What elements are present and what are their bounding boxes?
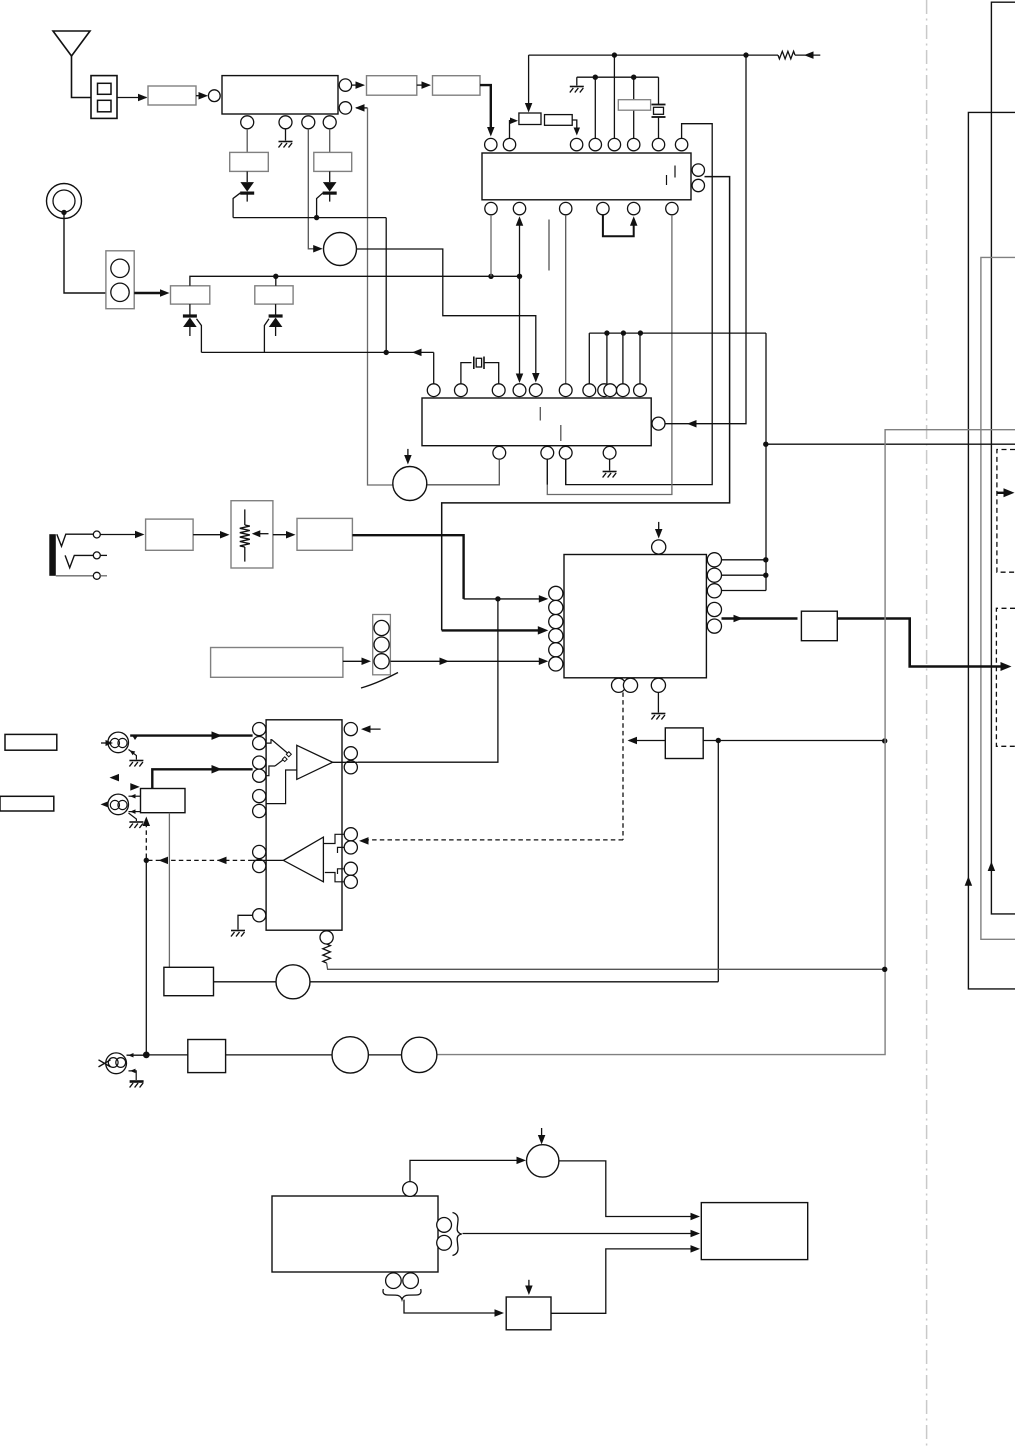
wire loop antenna to bar antenna [64,212,106,293]
pin IC4 right 4 [707,602,721,616]
connector sweep arc [361,673,398,689]
wire coil A to varactor D3 [189,304,191,316]
IC4 audio control IC [564,555,706,678]
pin IC5 left 6 [253,804,266,817]
mic jack J3 [108,794,129,815]
wire W3 gray bus to next page [981,257,1015,939]
headphone jack J1 [49,534,56,576]
buffer block [146,519,194,550]
junction rail right [743,52,748,57]
junction [314,215,319,220]
pin IC4 left 2 [549,600,563,614]
wire W1 to next page (top-right bus) [991,2,1015,914]
pin IC3 bottom gnd [603,446,616,459]
wire IC1 to filter A [352,84,364,86]
pins mechanism bottom [386,1273,402,1289]
pin IC2 top 4 [589,138,601,150]
junction data row 1 [604,330,609,335]
wire mute junction down to tape jack [145,860,147,1054]
mic jack J2 [108,732,129,753]
beep block [665,728,703,759]
AM tank top rail [190,276,520,286]
pin IC3 bottom 3 [559,446,572,459]
label block A [5,734,57,750]
pin IC2 bottom 1 [485,202,497,214]
pin IC2 top 8 [675,138,687,150]
IC1 front-end IC [222,76,338,114]
sensor block [506,1297,551,1330]
dashed mute to preamp [145,820,147,858]
arrow on AM tuning line [412,349,422,357]
wire through ceramic filter to IC2 pin6 [633,77,635,138]
local oscillator circle [393,467,427,501]
pin IC5 right 1 [344,723,357,736]
arrow up on W1 [988,862,996,872]
motor circle M [527,1145,559,1177]
varactor D2 [323,182,337,192]
junction audio line [495,596,500,601]
pins mechanism right [437,1218,452,1233]
ceramic filter block [618,100,650,111]
wire junction down to tape line [717,741,719,982]
pin IC2 top 1 [485,138,497,150]
bar antenna transformer [106,251,134,309]
AM coil block B [255,286,293,304]
control line to next page [766,443,1015,445]
trimmer block T1 [519,113,541,125]
pin IC3 top 9 [604,384,617,397]
AM coil block A [171,286,210,304]
wire IC1 pin3 to mixer [308,129,319,249]
pin IC5 left 3 [253,756,266,769]
jack contact 1 [57,534,94,546]
varactor D4 tap [264,319,269,353]
wire IC2 bottom pin1 to AM rail [490,215,492,276]
wire buffer to volume [193,534,227,536]
pin IC3 top 5 [529,384,542,397]
junction data row 2 [621,330,626,335]
pin IC2 bottom 3 [560,202,572,214]
pin IC1 bottom 3 [302,116,315,129]
brace below mechanism [383,1289,421,1300]
junction beep line at gray bus [882,738,887,743]
label block B [0,796,54,811]
op-amp B (playback amp) [283,837,323,882]
junction [384,350,389,355]
pin IC4 left 6 [549,657,563,671]
wire tuning line down to AM line [385,218,387,353]
pin IC2 top 2 [503,138,515,150]
supply arrow into IC4 [658,522,660,535]
wire between head circles [368,1054,401,1056]
mic line 1 to IC5 (thick) [130,734,252,736]
supply arrow into oscillator [407,449,409,461]
wire coil A to varactor D1 [246,171,248,182]
wire volume to amp block [273,534,294,536]
pin IC3 right [652,417,665,430]
gray bus wire W5 from next page to tape jack [437,430,1015,1055]
stray arrow left [112,777,118,779]
junction beep line [716,738,721,743]
pin IC4 right 2 [707,568,721,582]
varactor D3 [183,314,197,317]
pin IC5 left 9 [253,909,266,922]
pin IC3 bottom 1 [493,446,506,459]
pin IC4 left 3 [549,615,563,629]
wire beep block to mute line [629,740,665,742]
jack contact 2 [65,555,93,567]
wire antenna to jack [72,56,92,98]
wire brace to sensor block [404,1300,501,1313]
supply rail above IC2 [529,54,746,56]
wire junction to head block [146,1054,188,1056]
wire RF amp to IC1 [196,95,207,97]
ground IC3 [609,459,611,470]
wire mixer to IC3 [357,249,536,379]
pin IC3 top 4 [513,384,526,397]
bus from data row down right side [765,333,767,590]
junction on bus at control line [763,442,768,447]
arrow out of mic jack J3 [104,803,108,805]
feedback wire inside IC5 [266,770,297,804]
head circle 2 [402,1037,437,1072]
varactor D1 tuning tap [233,193,240,218]
varactor D2 tuning tap [317,193,323,218]
wire tuning line to IC3 pin1 [433,352,435,383]
dashed block (next page section) lower [996,608,1015,746]
bus IC2 right pin to audio select (thick) [442,177,730,631]
IC3 internal marks [539,407,541,421]
wire pin1 to tuner coil A [246,129,248,153]
pin IC1 bottom 1 [241,116,254,129]
op-amp B output dashed to mic select [253,859,284,861]
gray wire preamp to tape EQ [168,813,170,968]
pin IC2 top 6 [628,138,640,150]
pin IC4 left 4 [549,629,563,643]
pin IC1 in lower [339,102,351,114]
pin IC3 top 10 [617,384,630,397]
wire IC3 bottom pin1 to oscillator [427,459,499,485]
wire resistor to gray bus [327,963,885,969]
op-amp A (record amp) [297,745,333,779]
switch SW2 inside IC5 [266,766,275,776]
data bus row above IC3 [589,332,766,334]
wire bar antenna to AM coil A (thick) [134,292,166,294]
mechanism block [272,1196,438,1272]
label block (function) [211,648,343,678]
link IC2 pins 4-5 [603,215,634,236]
pin IC5 bottom [320,931,333,944]
junction rail [612,52,617,57]
wire AM rail to IC2 pin2 (arrow up) [519,219,521,277]
volume control block [231,501,273,568]
pin IC3 top 8 [598,384,611,397]
pin IC2 right 1 [692,164,704,176]
ground wire IC5 bottom-left pin [238,915,253,929]
RF amp block [148,86,196,105]
antenna terminal block [91,76,117,119]
wire beep block output [703,740,885,742]
IC3 PLL synthesizer IC [422,398,651,446]
wire sensor block to servo block [551,1249,697,1313]
wire to IC2 pin4 [594,77,596,138]
supply arrow into sensor block [528,1280,530,1292]
mute control dashed line from IC4 [622,692,624,840]
junction bias rail [593,75,598,80]
arrow into resistor R1 [795,54,820,56]
pin mechanism top [403,1182,418,1197]
pin IC5 left 8 [253,859,266,872]
pin IC5 right 6 [344,862,357,875]
wire amp output up to IC4 input [358,599,498,762]
wire head block to head circle 1 [226,1054,332,1056]
op-amp A output wire [333,761,358,763]
op-amp B input steps [323,834,344,843]
wire trimmer to IC2 pin3 [572,120,577,132]
bias rail above IC2 pins [577,76,659,78]
wire IC2 pin8 bus down right side [566,124,713,485]
pin IC3 top 11 [634,384,647,397]
wire filter A to filter B [417,84,430,86]
IC2 internal marks [666,175,668,185]
dashed block (next page section) upper [997,450,1015,573]
fold line (page fold mark) [926,0,928,1450]
tuner coil block A [230,152,269,171]
jack contact 3 (sleeve) [56,575,94,577]
arrows on op-amp B dashed line [217,857,227,865]
ground on bias rail [576,77,578,85]
pin IC2 bottom 5 [628,202,640,214]
pin IC3 top 3 [492,384,505,397]
ground IC4 [657,692,659,712]
pin IC5 left 2 [253,737,266,750]
wires IC4 right pins to data bus [722,559,766,561]
audio amp block [297,518,352,550]
varactor D1 [240,182,254,192]
wire EQ to bias circle [214,981,277,983]
pin IC4 right 1 [707,553,721,567]
varactor D3 tap [197,319,202,353]
supply arrow into motor [541,1128,543,1141]
pin IC1 out upper [339,79,351,91]
wire coil B to varactor D4 [275,304,277,316]
internal mark between IC2 and IC3 [548,220,550,271]
servo block [701,1203,807,1260]
pin IC1 bottom 4 [323,116,336,129]
pin IC2 bottom 6 [666,202,678,214]
ground at mic jack J2 [129,750,137,760]
mixer/oscillator circle [324,233,357,266]
wire jack to buffer [100,534,142,536]
pin IC5 right 5 [344,841,357,854]
crystal X1 [652,104,666,106]
bias oscillator circle [276,965,310,999]
junction above coil B [273,274,278,279]
junction bias rail 2 [631,75,636,80]
pin IC3 top 6 [559,384,572,397]
IC5 mic/line amplifier IC [266,720,342,930]
head block [188,1040,226,1073]
pin IC4 left 5 [549,643,563,657]
resistor R1 on rail [746,54,778,56]
junction AM rail end [517,274,522,279]
junction on gray bus [882,967,887,972]
pin IC5 right 3 [344,761,357,774]
wire rail to IC2 pin5 [613,55,615,138]
AM tuning voltage line [201,351,433,353]
mic preamp block [141,789,186,813]
head circle 1 [332,1037,368,1073]
wire coil B to varactor D2 [329,171,331,182]
pin IC3 top 7 [583,384,596,397]
speaker line to next page (thick) [837,619,1004,667]
tuner coil block B [314,152,352,171]
wire W2 to next page (right margin bus) [968,112,1015,989]
pin IC2 right 2 [692,179,704,191]
mic line 2 to IC5 (thick) [152,769,252,788]
power amp block [801,611,837,641]
wire from top rail bus into IC3 right pin [665,55,746,424]
filter block B [433,76,481,96]
audio line to IC4 (thick) [352,535,463,599]
wire motor to servo block [559,1161,697,1217]
pin IC5 right 4 [344,828,357,841]
pin IC5 left 5 [253,790,266,803]
wire jack to RF amp [117,97,147,99]
stray arrow right into preamp [133,786,137,788]
wire mechanism to motor [410,1160,523,1181]
junction tape line [143,1052,150,1059]
dashed control into IC5 right (from IC4) [359,837,369,845]
filter block A [367,76,417,96]
wire rail down to trimmer T1 [528,55,530,109]
arrow up on W2 [965,876,973,886]
tape jack contact to line [127,1054,147,1056]
pin IC4 right 3 [707,584,721,598]
switch SW1 inside IC5 [266,739,271,743]
junction AM rail / IC2 pin [488,274,493,279]
wire IC2 pin2 to trimmer [510,121,515,139]
junction mute lines [144,858,149,863]
brace right of mechanism [453,1213,462,1256]
pin IC2 bottom 2 [513,202,525,214]
ground at mic jack J3 [129,813,137,821]
wire brace to servo block [463,1233,697,1235]
wire IC3 pin2 stub [546,459,548,484]
wire label block to connector [343,660,369,662]
wire filter B to IC2 pin1 (thick) [480,85,491,133]
wire AM rail down to IC3 (arrow down) [519,276,521,379]
wire IC2 pin3 to IC3 [565,215,567,384]
pin IC2 top 3 [570,138,582,150]
wire feedback into IC1 lower pin [356,107,368,109]
pin IC4 right 5 [707,619,721,633]
pin IC3 top 1 [427,384,440,397]
mic jack J3 contacts to preamp [129,795,141,797]
wire bias circle to beep junction [310,981,718,983]
resistor R2 at IC5 bottom [323,944,331,963]
IC2 IF detector IC [482,153,691,200]
FM tuning voltage line [233,217,386,219]
arrow into dashed block upper [997,492,1006,494]
pin IC5 left 7 [253,845,266,858]
antenna ANT1 [53,31,90,56]
pin IC5 left 4 [253,769,266,782]
tape EQ block [164,967,214,995]
crystal X2 loop at IC3 [461,363,472,384]
loop antenna [47,184,82,219]
arrow into mic jack J2 [101,742,110,744]
pin (IC1 input) [208,90,220,102]
audio output line IC4 (thick) [722,617,798,619]
X mark at tape jack [99,1060,111,1067]
stub arrow into IC5 right pin1 [364,728,381,730]
ground at IC1 pin2 [285,129,287,141]
pin IC3 bottom 2 [541,446,554,459]
wire IC3 pin3 stub [565,459,567,484]
ground at tape jack [129,1071,137,1080]
trimmer block T2 [545,115,573,126]
pin IC2 bottom 4 [597,202,609,214]
pin IC4 top (supply) [652,540,666,554]
junction at loop antenna [61,210,66,215]
pin IC3 top 2 [455,384,468,397]
wire connector to IC4 [390,660,544,662]
wire down to local oscillator [368,108,393,485]
pins IC4 bottom [612,678,626,692]
wire IC2 pin6 bus down [547,215,672,495]
wire to crystal [658,77,660,104]
pin IC5 right 2 [344,747,357,760]
varactor D4 [269,314,283,317]
pin IC1 bottom 2 [279,116,292,129]
pin IC4 left 1 [549,586,563,600]
tape jack J4 [106,1053,127,1074]
junction data row 3 [638,330,643,335]
pin IC5 left 1 [253,723,266,736]
wire pin4 to tuner coil B [329,129,331,153]
pin IC2 top 5 [608,138,620,150]
connector CN1 [373,615,391,675]
pin IC2 top 7 [652,138,664,150]
pin IC5 right 7 [344,875,357,888]
